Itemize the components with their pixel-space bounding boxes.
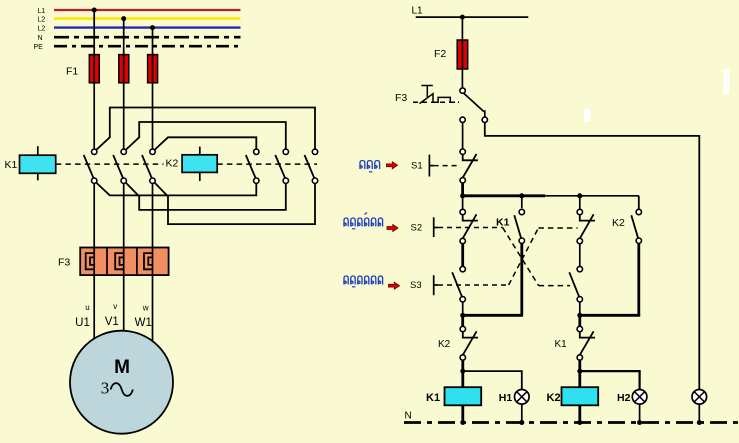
svg-text:H1: H1 <box>499 392 513 404</box>
svg-text:F3: F3 <box>58 257 70 269</box>
wire to lamp H1 <box>463 371 522 390</box>
wire join to K2 interlock contact (bold) <box>461 315 464 326</box>
svg-text:K1: K1 <box>496 217 510 229</box>
node bus / branch C <box>577 193 582 198</box>
node N/H1 <box>519 420 524 425</box>
label "rotate left" (Thai) <box>344 218 383 227</box>
wire to lamp H2 (bold) <box>580 371 640 390</box>
node L2 tap <box>121 16 126 21</box>
svg-text:F3: F3 <box>395 92 407 104</box>
power rail L2 (yellow) <box>54 17 241 20</box>
fuse F1 pole 1 <box>89 55 99 83</box>
K1 auxiliary holding contact (NO) <box>519 209 524 214</box>
svg-text:V1: V1 <box>105 316 119 328</box>
svg-text:PE: PE <box>34 44 44 51</box>
svg-text:W1: W1 <box>135 317 152 329</box>
stop button S1 (NC) <box>460 149 465 154</box>
fuse F1 pole 2 <box>119 55 129 83</box>
wire S1 to bus (bold) <box>461 183 464 196</box>
pilot lamp H3 (fault) <box>692 390 707 405</box>
wire bus drop to K1 aux <box>521 196 523 208</box>
contactor K1 main contact 1 <box>92 149 97 154</box>
node N/K2 coil <box>577 420 582 425</box>
wire overload to motor W1 <box>152 248 154 342</box>
svg-text:N: N <box>38 35 43 42</box>
svg-text:F1: F1 <box>66 66 78 78</box>
svg-text:S1: S1 <box>411 161 423 172</box>
S2 dashed link <box>438 227 503 229</box>
interlock cross link S2 to K2 branch (dashed) <box>503 228 539 286</box>
fuse F1 pole 3 <box>148 55 158 83</box>
wire K1 pole3 to overload <box>152 184 154 248</box>
S1 pushbutton actuator <box>428 155 430 177</box>
svg-text:U1: U1 <box>75 317 90 329</box>
wire F3 NO to pilot lamp (right) <box>485 123 700 391</box>
wire K1 aux down to join (bold) <box>520 243 523 315</box>
motor M 3-phase <box>70 331 173 434</box>
wire L2 to fuse and K1 contact 2 <box>123 19 125 149</box>
svg-text:L2: L2 <box>38 26 46 33</box>
wire phase3 to K2 pole1 (top crossover) <box>155 137 256 149</box>
S2 pushbutton actuator <box>433 217 435 237</box>
svg-text:v: v <box>113 302 117 311</box>
button S2 contact in K1 branch (NC) <box>460 209 465 214</box>
svg-text:F2: F2 <box>434 48 446 60</box>
wire K1-NC to K2 coil (bold) <box>578 360 581 387</box>
wire S2 to S3 contact (bold) <box>461 244 464 267</box>
power rail L1 <box>54 9 241 11</box>
coil K1 <box>445 387 482 405</box>
power rail PE <box>54 45 241 48</box>
contactor K1 main contact 2 <box>121 149 126 154</box>
svg-text:K1: K1 <box>426 392 440 404</box>
wire F3 to S1 <box>462 123 464 149</box>
overload heater element at x=94.2 <box>86 253 95 269</box>
label "rotate right" (Thai) <box>344 276 383 285</box>
svg-text:L1: L1 <box>412 6 424 17</box>
contactor K2 main contact 1 <box>254 149 259 154</box>
svg-text:S3: S3 <box>410 280 422 291</box>
svg-text:K1: K1 <box>555 339 568 350</box>
node L1 control tap <box>460 15 465 20</box>
power rail L3 (blue, labelled L2) <box>54 26 241 28</box>
sine symbol <box>111 383 133 396</box>
coil box K1 (power side) <box>20 155 56 173</box>
coil K2 <box>562 387 599 405</box>
fuse F2 <box>457 40 468 69</box>
node L1 tap <box>92 8 97 13</box>
svg-text:L1: L1 <box>38 8 46 15</box>
wire phase2 to K2 pole2 (top crossover) <box>126 122 286 150</box>
pilot lamp H1 <box>515 390 530 405</box>
contactor K2 main contact 3 <box>312 149 317 154</box>
node bus / branch A <box>460 193 465 198</box>
svg-text:K2: K2 <box>612 217 625 229</box>
pilot lamp H2 <box>632 390 647 405</box>
wire K1 pole2 to overload <box>123 184 125 248</box>
overload heater element at x=123.7 <box>115 253 124 269</box>
svg-text:K2: K2 <box>166 158 179 170</box>
power rail N <box>54 36 241 39</box>
white patch 2 <box>584 109 590 122</box>
svg-text:u: u <box>85 303 89 312</box>
white patch 1 <box>724 69 730 94</box>
wire bus drop to S2 contact <box>462 196 464 209</box>
thermal overload F3 block <box>80 248 168 276</box>
svg-text:S2: S2 <box>411 222 423 233</box>
wire K1 pole2 out to K2 pole2 out <box>126 183 286 210</box>
K1 actuator dashed link <box>56 163 164 165</box>
overload F3 trip contact <box>460 88 465 93</box>
arrow to S1 <box>387 162 398 169</box>
wire K1 pole1 out to K2 pole1 out <box>97 183 257 196</box>
wire K2-NC to K1 coil (bold) <box>461 360 464 387</box>
wire L1 to fuse F2 <box>461 17 463 90</box>
wire K2 coil to N (bold) <box>578 405 581 422</box>
node N/H3 <box>697 420 702 425</box>
wire L3 to fuse and K1 contact 3 <box>152 28 154 149</box>
wire L1 to fuse and K1 contact 1 <box>93 10 95 149</box>
node bus / branch B <box>519 193 524 198</box>
node N/K1 coil <box>460 420 465 425</box>
svg-text:K1: K1 <box>5 159 18 171</box>
control bus <box>461 194 545 197</box>
node H1 branch <box>460 369 465 374</box>
wire bus to K2 aux branch <box>638 196 640 209</box>
wire join to K1 interlock contact (bold) <box>578 315 581 326</box>
arrow to S2 <box>387 225 398 232</box>
node H2 branch <box>577 369 582 374</box>
svg-text:w: w <box>142 304 149 313</box>
wire K2 aux down to join (bold) <box>637 243 640 315</box>
arrow to S3 <box>389 282 400 289</box>
wire phase1 to K2 pole3 (top crossover) <box>97 108 316 150</box>
coil box K2 (power side) <box>182 155 217 173</box>
label "stop" (Thai) <box>360 161 380 170</box>
svg-text:3: 3 <box>101 379 110 398</box>
node K1 branch join <box>460 313 465 318</box>
wire overload to motor V1 <box>123 248 125 331</box>
K2 actuator dashed link <box>217 163 317 165</box>
wire branch C to junction <box>579 302 581 316</box>
S3 NC contact in K2 branch <box>577 209 582 214</box>
node N/H2 <box>637 420 642 425</box>
control rail L1 <box>416 16 529 18</box>
node K2 branch join <box>577 313 582 318</box>
wire S3 to junction <box>462 302 464 316</box>
wire K1 pole3 out to K2 pole3 out <box>155 183 315 224</box>
interlock contact K1 (NC) <box>577 326 582 331</box>
svg-text:K2: K2 <box>547 392 561 404</box>
S2 NC contact in K2 branch (NO style) <box>577 266 582 271</box>
wire bus drop to S3 NC contact <box>579 196 581 209</box>
neutral rail N <box>404 421 739 424</box>
svg-text:M: M <box>114 357 130 378</box>
svg-text:K2: K2 <box>438 339 451 350</box>
node L3 tap <box>150 25 155 30</box>
wire K1 pole1 to overload <box>93 184 95 248</box>
contactor K2 main contact 2 <box>283 149 288 154</box>
svg-text:N: N <box>405 411 412 422</box>
interlock cross link S3 to K2 branch (dashed) <box>438 284 509 286</box>
wire overload to motor U1 <box>93 248 95 339</box>
S3 pushbutton actuator <box>433 275 435 295</box>
wire between S3-NC and S2-NC (branch C) <box>579 244 581 267</box>
svg-text:L2: L2 <box>38 16 46 23</box>
svg-text:H2: H2 <box>617 392 631 404</box>
overload heater element at x=152.5 <box>144 253 153 269</box>
contactor K1 main contact 3 <box>150 149 155 154</box>
F3 trip device glyph <box>413 101 459 103</box>
button S3 contact in K1 branch (NO) <box>460 266 465 271</box>
wire K1 coil to N (bold) <box>461 405 464 422</box>
interlock contact K2 (NC) <box>460 326 465 331</box>
K2 auxiliary holding contact (NO) <box>636 209 641 214</box>
